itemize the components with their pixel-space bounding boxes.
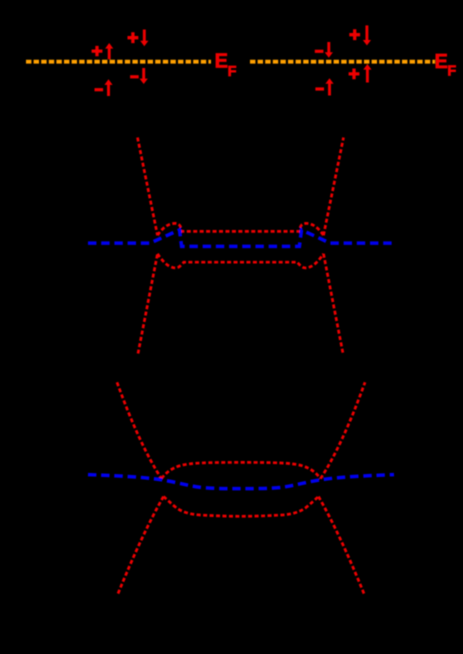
svg-text:F: F <box>228 64 237 80</box>
middle band: upper-right steep branch <box>324 138 344 236</box>
lower band: upper-left steep branch <box>117 382 162 478</box>
middle band: upper band with humps and flat top <box>158 223 324 235</box>
label -down (left panel below line): minus sign <box>130 75 139 78</box>
label +down (left panel above line): plus sign <box>128 32 139 43</box>
middle band: lower-left steep branch <box>138 254 158 354</box>
lower band: lower band lens arc with peaks <box>164 497 319 517</box>
label +down (left panel above line): down arrow <box>140 30 148 47</box>
middle band: upper-left steep branch <box>138 138 158 236</box>
lower band: lower-left steep branch <box>117 497 163 596</box>
lower band diagram : red dotted bands <box>117 382 365 595</box>
label +down (right panel above line): plus sign <box>349 29 360 40</box>
label +up (right panel below line): plus sign <box>349 69 360 80</box>
label E_F (right panel) <box>435 51 457 80</box>
label -up (left panel below line): up arrow <box>104 79 112 96</box>
label E_F (left panel) <box>215 51 237 81</box>
lower band: lower-right steep branch <box>319 497 365 596</box>
lower band diagram : blue dashed chiral state <box>88 475 394 489</box>
middle band diagram : red dotted bands <box>138 138 344 354</box>
label -down (right panel above line): down arrow <box>325 42 333 58</box>
Fermi level line (left panel) <box>26 60 211 64</box>
label +down (right panel above line): down arrow <box>363 25 371 45</box>
svg-text:E: E <box>435 51 448 73</box>
label +up (right panel below line): up arrow <box>363 64 371 83</box>
lower band: upper-right steep branch <box>321 382 366 478</box>
middle band diagram : blue dashed chiral state <box>88 230 394 247</box>
label +up (left panel above line): plus sign <box>92 46 103 56</box>
label +up (left panel above line): up arrow <box>105 43 113 59</box>
svg-text:E: E <box>215 51 228 73</box>
lower band: upper band lens arc <box>162 462 321 478</box>
label -down (left panel below line): down arrow <box>140 68 148 84</box>
middle band: lower band with dips and flat bottom <box>158 254 324 268</box>
label -up (left panel below line): minus sign <box>95 88 104 91</box>
label -up (right panel below line): minus sign <box>315 87 324 90</box>
label -up (right panel below line): up arrow <box>325 78 333 95</box>
middle band: lower-right steep branch <box>324 254 344 354</box>
Fermi level line (right panel) <box>250 60 435 64</box>
label -down (right panel above line): minus sign <box>315 50 324 53</box>
svg-text:F: F <box>447 63 456 79</box>
